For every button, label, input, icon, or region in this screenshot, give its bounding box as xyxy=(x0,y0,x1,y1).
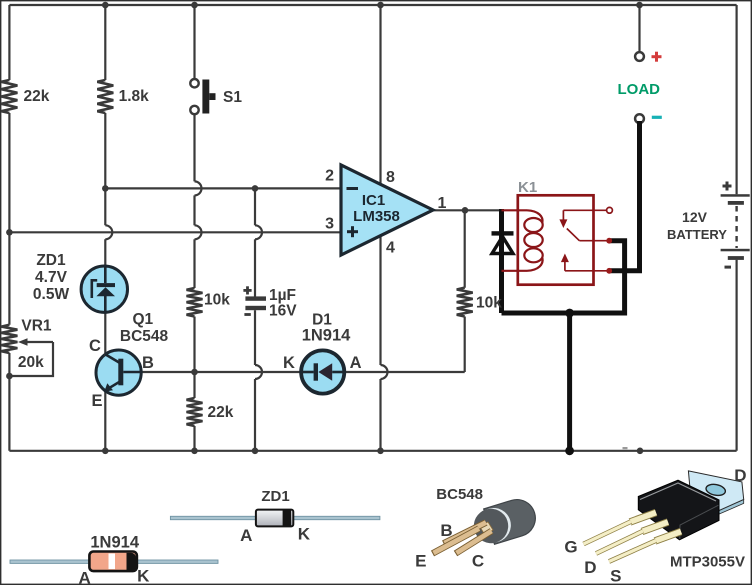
svg-text:LOAD: LOAD xyxy=(618,81,661,98)
svg-text:2: 2 xyxy=(325,168,334,185)
svg-text:ZD1: ZD1 xyxy=(36,252,66,269)
svg-text:BC548: BC548 xyxy=(436,486,483,503)
svg-text:VR1: VR1 xyxy=(21,318,52,335)
svg-text:1: 1 xyxy=(438,195,447,212)
svg-text:B: B xyxy=(142,354,154,372)
svg-text:1N914: 1N914 xyxy=(302,327,351,345)
svg-text:B: B xyxy=(440,521,452,540)
svg-text:1.8k: 1.8k xyxy=(119,88,150,105)
svg-text:0.5W: 0.5W xyxy=(33,286,70,303)
svg-text:K1: K1 xyxy=(518,179,537,196)
svg-text:1µF: 1µF xyxy=(269,287,296,304)
svg-text:K: K xyxy=(298,525,311,544)
svg-text:K: K xyxy=(137,567,150,585)
svg-text:10k: 10k xyxy=(204,292,230,309)
svg-text:3: 3 xyxy=(325,215,334,232)
svg-text:4.7V: 4.7V xyxy=(35,269,68,286)
svg-text:1N914: 1N914 xyxy=(90,534,139,552)
svg-text:A: A xyxy=(79,568,91,585)
svg-text:A: A xyxy=(350,354,362,372)
svg-text:4: 4 xyxy=(386,240,395,257)
svg-text:16V: 16V xyxy=(269,303,297,320)
svg-text:MTP3055V: MTP3055V xyxy=(670,553,745,570)
svg-text:12V: 12V xyxy=(682,209,708,225)
svg-text:G: G xyxy=(564,538,577,557)
svg-text:K: K xyxy=(283,354,295,372)
svg-text:E: E xyxy=(415,552,426,571)
svg-text:BATTERY: BATTERY xyxy=(667,227,727,242)
svg-text:10k: 10k xyxy=(476,295,502,312)
svg-text:S1: S1 xyxy=(223,89,242,106)
svg-text:22k: 22k xyxy=(24,88,50,105)
svg-text:IC1: IC1 xyxy=(362,192,385,209)
svg-text:A: A xyxy=(240,526,252,545)
svg-text:Q1: Q1 xyxy=(132,311,153,328)
svg-text:BC548: BC548 xyxy=(120,328,169,345)
svg-text:22k: 22k xyxy=(208,404,234,421)
svg-text:8: 8 xyxy=(386,169,395,186)
svg-text:S: S xyxy=(610,567,621,585)
svg-text:D: D xyxy=(584,558,596,577)
svg-text:E: E xyxy=(91,392,102,410)
svg-text:C: C xyxy=(472,552,484,571)
svg-text:ZD1: ZD1 xyxy=(261,488,289,505)
svg-text:LM358: LM358 xyxy=(353,208,400,225)
svg-text:D: D xyxy=(734,466,746,485)
svg-text:C: C xyxy=(89,337,101,355)
svg-text:20k: 20k xyxy=(18,354,44,371)
